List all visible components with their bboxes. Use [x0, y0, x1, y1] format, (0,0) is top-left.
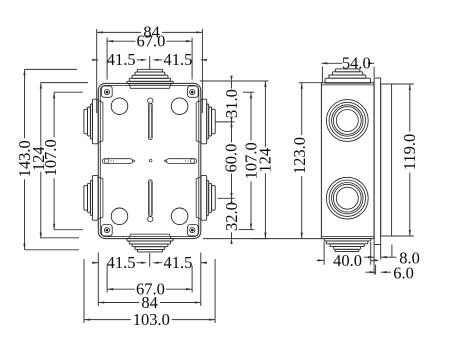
dimension 123.0 [290, 83, 309, 239]
extension lines 8.0 and 6.0 [374, 245, 392, 275]
dimension 32.0 right [222, 193, 241, 244]
top mounting keyhole slot [148, 98, 153, 140]
dimension 107.0 right [241, 92, 260, 229]
svg-text:119.0: 119.0 [400, 134, 419, 171]
knock-out circle top-left [111, 98, 128, 115]
dimension 119.0 [400, 84, 419, 236]
dimension 124 right [256, 81, 275, 239]
svg-text:103.0: 103.0 [133, 310, 170, 329]
extension lines left (screw centres) [54, 92, 83, 230]
lid flange strip [374, 78, 381, 245]
junction box front view body outline [98, 83, 201, 238]
left lower cable gland (stepped) [84, 176, 103, 221]
svg-text:41.5: 41.5 [107, 253, 136, 272]
knock-out circle top-right [171, 98, 188, 115]
top cable gland (stepped) [127, 69, 173, 88]
right upper cable gland (stepped) [196, 99, 215, 144]
dimension 40.0 [317, 251, 379, 270]
svg-text:41.5: 41.5 [163, 50, 192, 69]
extension lines left (box top/bottom) [41, 83, 88, 238]
side view bottom gland (stepped) [324, 239, 371, 252]
dimension 67.0 bottom [107, 280, 192, 299]
dimension 84 bottom [98, 293, 201, 312]
svg-text:67.0: 67.0 [136, 32, 165, 51]
dimension 103.0 bottom [84, 310, 215, 329]
side view upper gland rings [326, 100, 368, 142]
screw boss top-left [102, 86, 113, 97]
svg-text:54.0: 54.0 [342, 54, 371, 73]
side view top gland (stepped) [325, 69, 370, 83]
svg-text:41.5: 41.5 [107, 50, 136, 69]
left upper cable gland (stepped) [84, 99, 103, 144]
extension lines left (gland extents) [25, 69, 80, 249]
dimension 41.5 / 41.5 bottom [92, 253, 207, 272]
svg-text:124: 124 [256, 148, 275, 173]
knock-out circle bottom-left [111, 208, 128, 225]
extension lines 54.0 [322, 67, 374, 83]
dimension 31.0 right [222, 76, 241, 128]
svg-text:31.0: 31.0 [222, 89, 241, 118]
dimension 41.5 / 41.5 top [92, 50, 207, 69]
extension lines top (screw centres) [107, 38, 192, 80]
screw boss bottom-right [188, 225, 199, 236]
bottom mounting keyhole slot [148, 180, 153, 222]
side view lid seam bottom [321, 235, 374, 237]
svg-text:40.0: 40.0 [333, 251, 362, 270]
dimension 67.0 top [107, 32, 192, 51]
extension lines bottom (overall width) [84, 259, 215, 323]
knock-out circle bottom-right [171, 208, 188, 225]
dimension 124 left [29, 83, 48, 239]
svg-text:32.0: 32.0 [222, 202, 241, 231]
dimension 54.0 [321, 54, 374, 73]
extension lines bottom (box edges) [98, 253, 201, 307]
svg-text:6.0: 6.0 [393, 264, 414, 283]
svg-text:60.0: 60.0 [222, 144, 241, 173]
front view lid seam inner outline [100, 85, 199, 236]
extension lines right (screw centres) [239, 92, 255, 229]
extension line bottom projection [203, 238, 321, 240]
extension lines right gland centres [215, 122, 234, 198]
centre pilot hole [149, 159, 152, 162]
side view lower gland rings [326, 177, 368, 219]
lid panel [381, 84, 392, 236]
svg-text:107.0: 107.0 [41, 139, 60, 176]
extension lines 40.0 [324, 242, 371, 265]
side view lid seam top [321, 84, 374, 86]
svg-text:123.0: 123.0 [290, 137, 309, 174]
extension lines top (box edges) [97, 29, 203, 113]
dimension 107.0 left [41, 92, 60, 230]
left horizontal slot [102, 159, 135, 164]
screw boss top-right [188, 86, 199, 97]
svg-text:41.5: 41.5 [163, 253, 192, 272]
dimension 6.0 [366, 264, 414, 283]
extension lines 123.0 [299, 82, 322, 84]
right horizontal slot [164, 159, 197, 164]
extension lines bottom (screw centres) [107, 266, 192, 293]
side view body outline [321, 83, 374, 239]
dimension 60.0 right [222, 117, 241, 204]
right lower cable gland (stepped) [196, 176, 215, 221]
bottom cable gland (stepped) [127, 234, 173, 252]
dimension 8.0 [364, 249, 420, 268]
dimension 84 top [97, 23, 203, 42]
extension line top-right (box top) [200, 80, 269, 82]
extension lines 119.0 [382, 84, 414, 236]
dimension 143.0 left [15, 69, 34, 249]
screw boss bottom-left [102, 225, 113, 236]
